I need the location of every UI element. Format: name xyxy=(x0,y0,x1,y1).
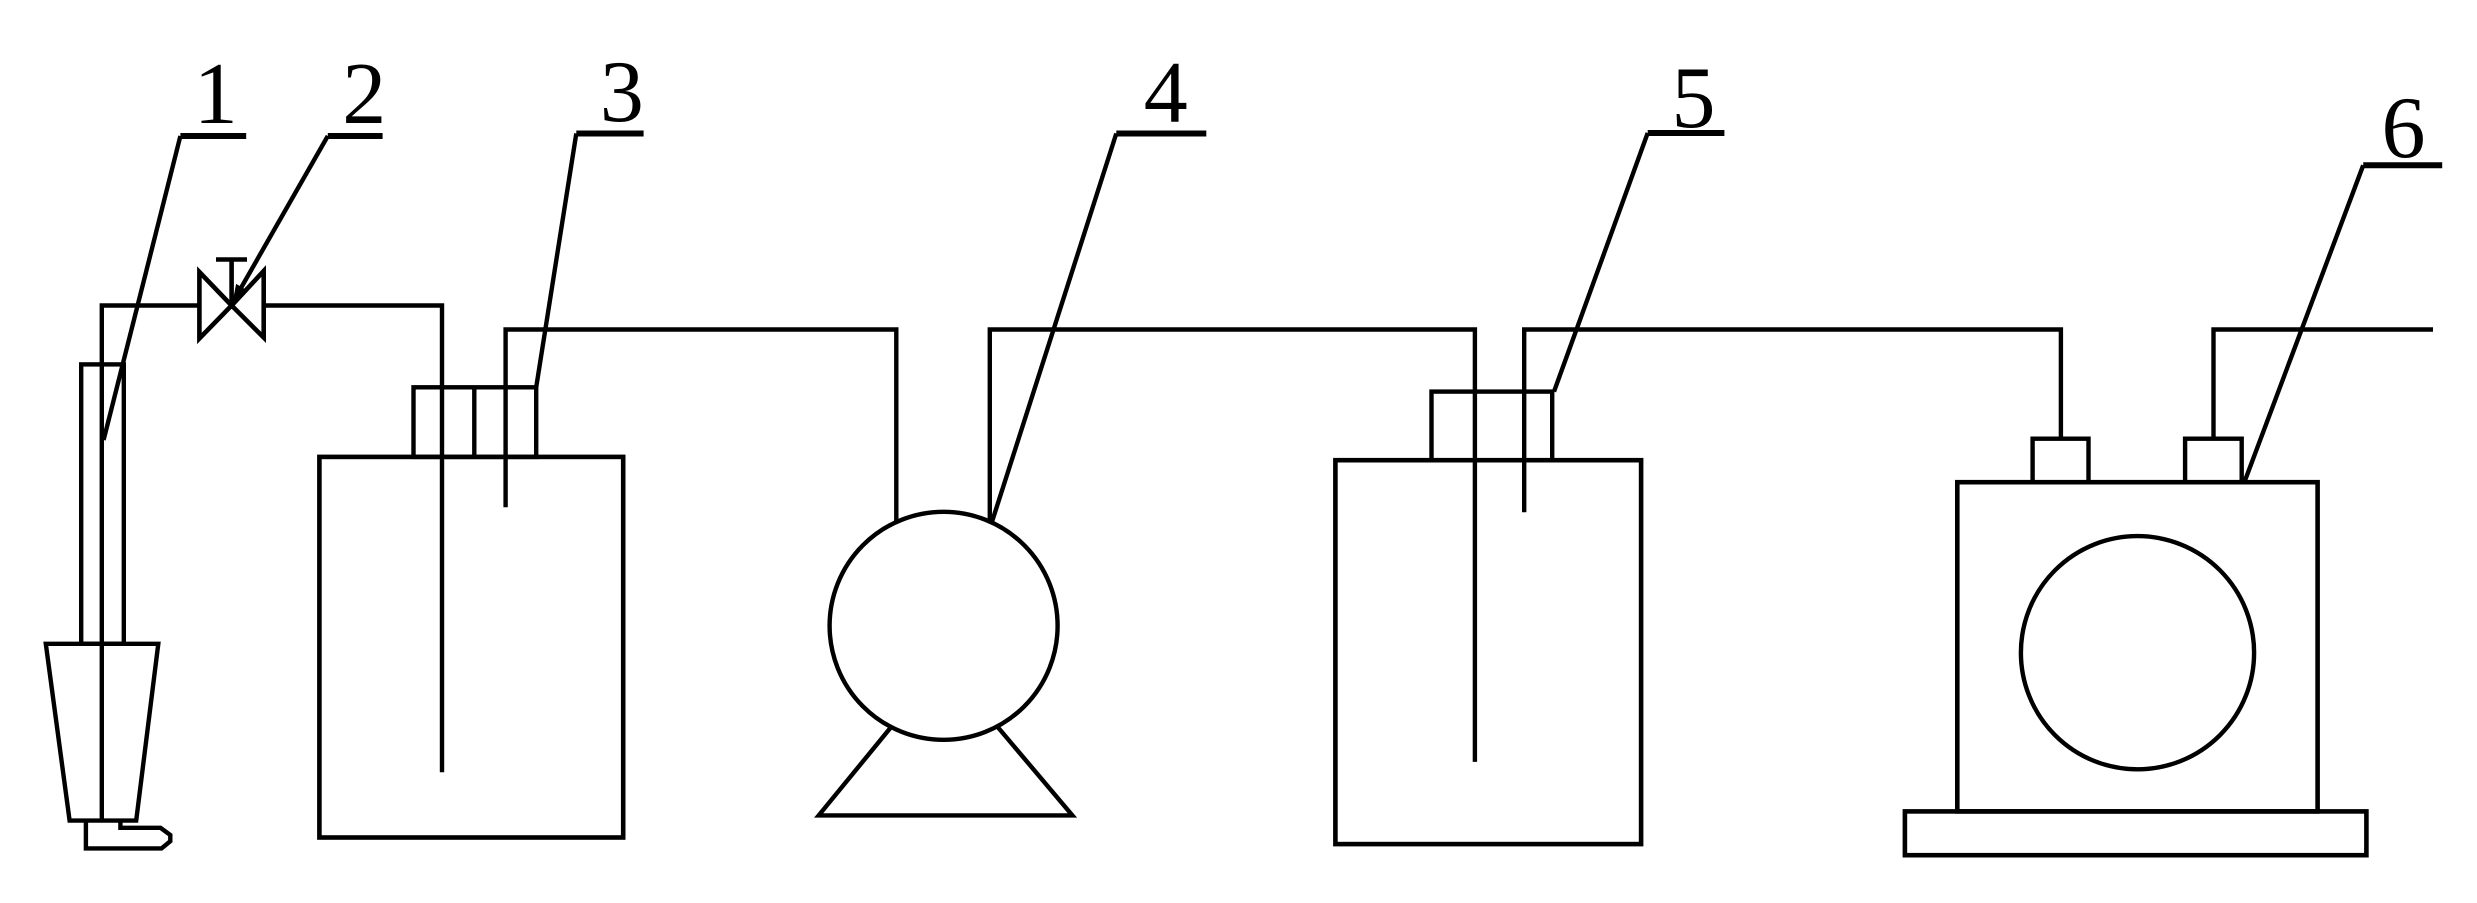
wire: pump outlet to tank 5 dip tube xyxy=(990,330,1475,762)
svg-text:4: 4 xyxy=(1144,45,1188,142)
tank 3 body xyxy=(319,457,623,838)
label 2 underline xyxy=(328,133,383,139)
label 3 leader xyxy=(536,134,576,388)
svg-text:5: 5 xyxy=(1672,50,1716,147)
label 1 underline xyxy=(180,133,246,139)
tank 5 cap xyxy=(1432,392,1553,461)
probe 1 foot nozzle xyxy=(86,821,170,849)
wire: detector right port vent line xyxy=(2214,330,2434,439)
detector 6 circle xyxy=(2021,536,2254,769)
probe 1 outer tube xyxy=(81,364,124,643)
svg-text:3: 3 xyxy=(600,44,644,141)
wire: probe inner pipe up and right to valve xyxy=(102,306,198,821)
valve 2 left triangle xyxy=(199,272,231,339)
tank 5 body xyxy=(1335,460,1641,844)
label 2 arrowhead xyxy=(233,284,246,303)
detector 6 base plate xyxy=(1905,811,2366,855)
tank 3 cap divider xyxy=(472,387,476,457)
label 6 underline xyxy=(2363,162,2442,168)
label 5 underline xyxy=(1648,130,1725,136)
wire: tank 3 outlet to pump inlet xyxy=(506,330,897,524)
valve 2 stem xyxy=(216,260,247,306)
pump 4 base triangle xyxy=(819,663,1073,815)
label 2 leader xyxy=(234,136,328,301)
svg-text:2: 2 xyxy=(342,46,386,143)
wire: valve to tank 3 dip tube xyxy=(264,306,442,773)
wire: tank 5 outlet to detector left port xyxy=(1524,330,2061,513)
label 6 leader xyxy=(2245,165,2363,480)
detector 6 right port xyxy=(2185,439,2242,483)
svg-text:1: 1 xyxy=(194,46,238,143)
label 4 underline xyxy=(1116,131,1206,137)
pump 4 circle xyxy=(830,512,1058,740)
label 3 underline xyxy=(576,131,643,137)
svg-text:6: 6 xyxy=(2382,80,2426,177)
label 1 leader xyxy=(104,136,181,440)
label 4 leader xyxy=(992,134,1117,524)
detector 6 main box xyxy=(1957,482,2317,811)
detector 6 left port xyxy=(2033,439,2089,483)
label 5 leader xyxy=(1554,133,1648,392)
probe 1 cone xyxy=(46,644,159,821)
tank 3 cap xyxy=(414,387,537,457)
valve 2 right triangle xyxy=(232,271,264,338)
